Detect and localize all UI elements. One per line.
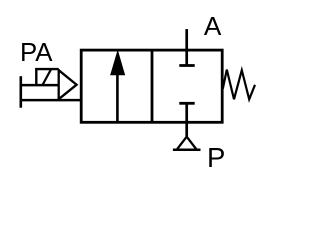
pilot box diagonal — [43, 69, 52, 85]
svg-text:P: P — [207, 142, 225, 173]
port A lead — [185, 29, 188, 65]
svg-text:A: A — [204, 11, 222, 41]
svg-text:PA: PA — [20, 39, 53, 67]
blocked port A bar — [179, 64, 194, 67]
blocked port P bar — [179, 102, 194, 105]
pilot triangle — [59, 69, 77, 100]
exhaust triangle P — [177, 137, 197, 150]
flow arrow — [116, 74, 119, 122]
port lead PA — [19, 76, 22, 108]
pilot box — [36, 69, 58, 85]
port P lead — [185, 103, 188, 136]
valve body — [81, 50, 222, 122]
wire pilot lower — [20, 99, 82, 102]
wire pilot upper — [20, 84, 59, 87]
spring — [223, 70, 255, 100]
valve body divider — [151, 50, 154, 122]
